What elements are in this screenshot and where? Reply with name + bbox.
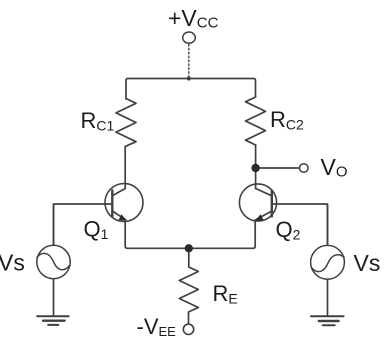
wire top supply rail	[126, 79, 256, 100]
svg-text:+VCC: +VCC	[168, 5, 219, 32]
transistor Q1	[105, 184, 143, 222]
resistor RC1	[116, 99, 136, 147]
resistor RE	[179, 252, 198, 324]
transistor Q2	[239, 184, 276, 221]
svg-text:Vs: Vs	[0, 250, 25, 276]
svg-text:Q2: Q2	[276, 217, 301, 243]
node -VEE terminal circle	[183, 324, 193, 334]
wire RC2 to Q2 collector	[255, 145, 257, 189]
ground left	[37, 316, 68, 325]
svg-text:Q1: Q1	[84, 216, 109, 242]
source Vs right	[311, 204, 345, 315]
resistor RC2	[246, 97, 266, 145]
source Vs left	[37, 204, 70, 315]
wire RC1 to Q1 collector	[124, 147, 126, 189]
wire Q1 base lead	[54, 204, 113, 245]
wire VCC dotted lead	[188, 45, 190, 78]
svg-text:RE: RE	[213, 281, 238, 307]
wire Q2 emitter lead	[253, 220, 255, 249]
svg-text:Vs: Vs	[354, 250, 381, 276]
ground right	[311, 316, 344, 325]
wire Q1 emitter lead	[125, 220, 127, 249]
node junction collector-VO	[251, 164, 259, 172]
wire Q2 base lead	[272, 204, 328, 245]
node junction VCC rail	[187, 76, 191, 80]
wire VO tap	[260, 167, 300, 169]
svg-text:VO: VO	[321, 154, 348, 181]
node +VCC terminal circle	[183, 32, 196, 43]
svg-text:RC1: RC1	[81, 108, 115, 134]
svg-text:RC2: RC2	[270, 107, 304, 133]
node junction emitter rail	[185, 244, 193, 252]
wire emitter rail	[127, 247, 253, 249]
svg-text:-VEE: -VEE	[137, 314, 177, 339]
node VO terminal circle	[300, 164, 309, 173]
